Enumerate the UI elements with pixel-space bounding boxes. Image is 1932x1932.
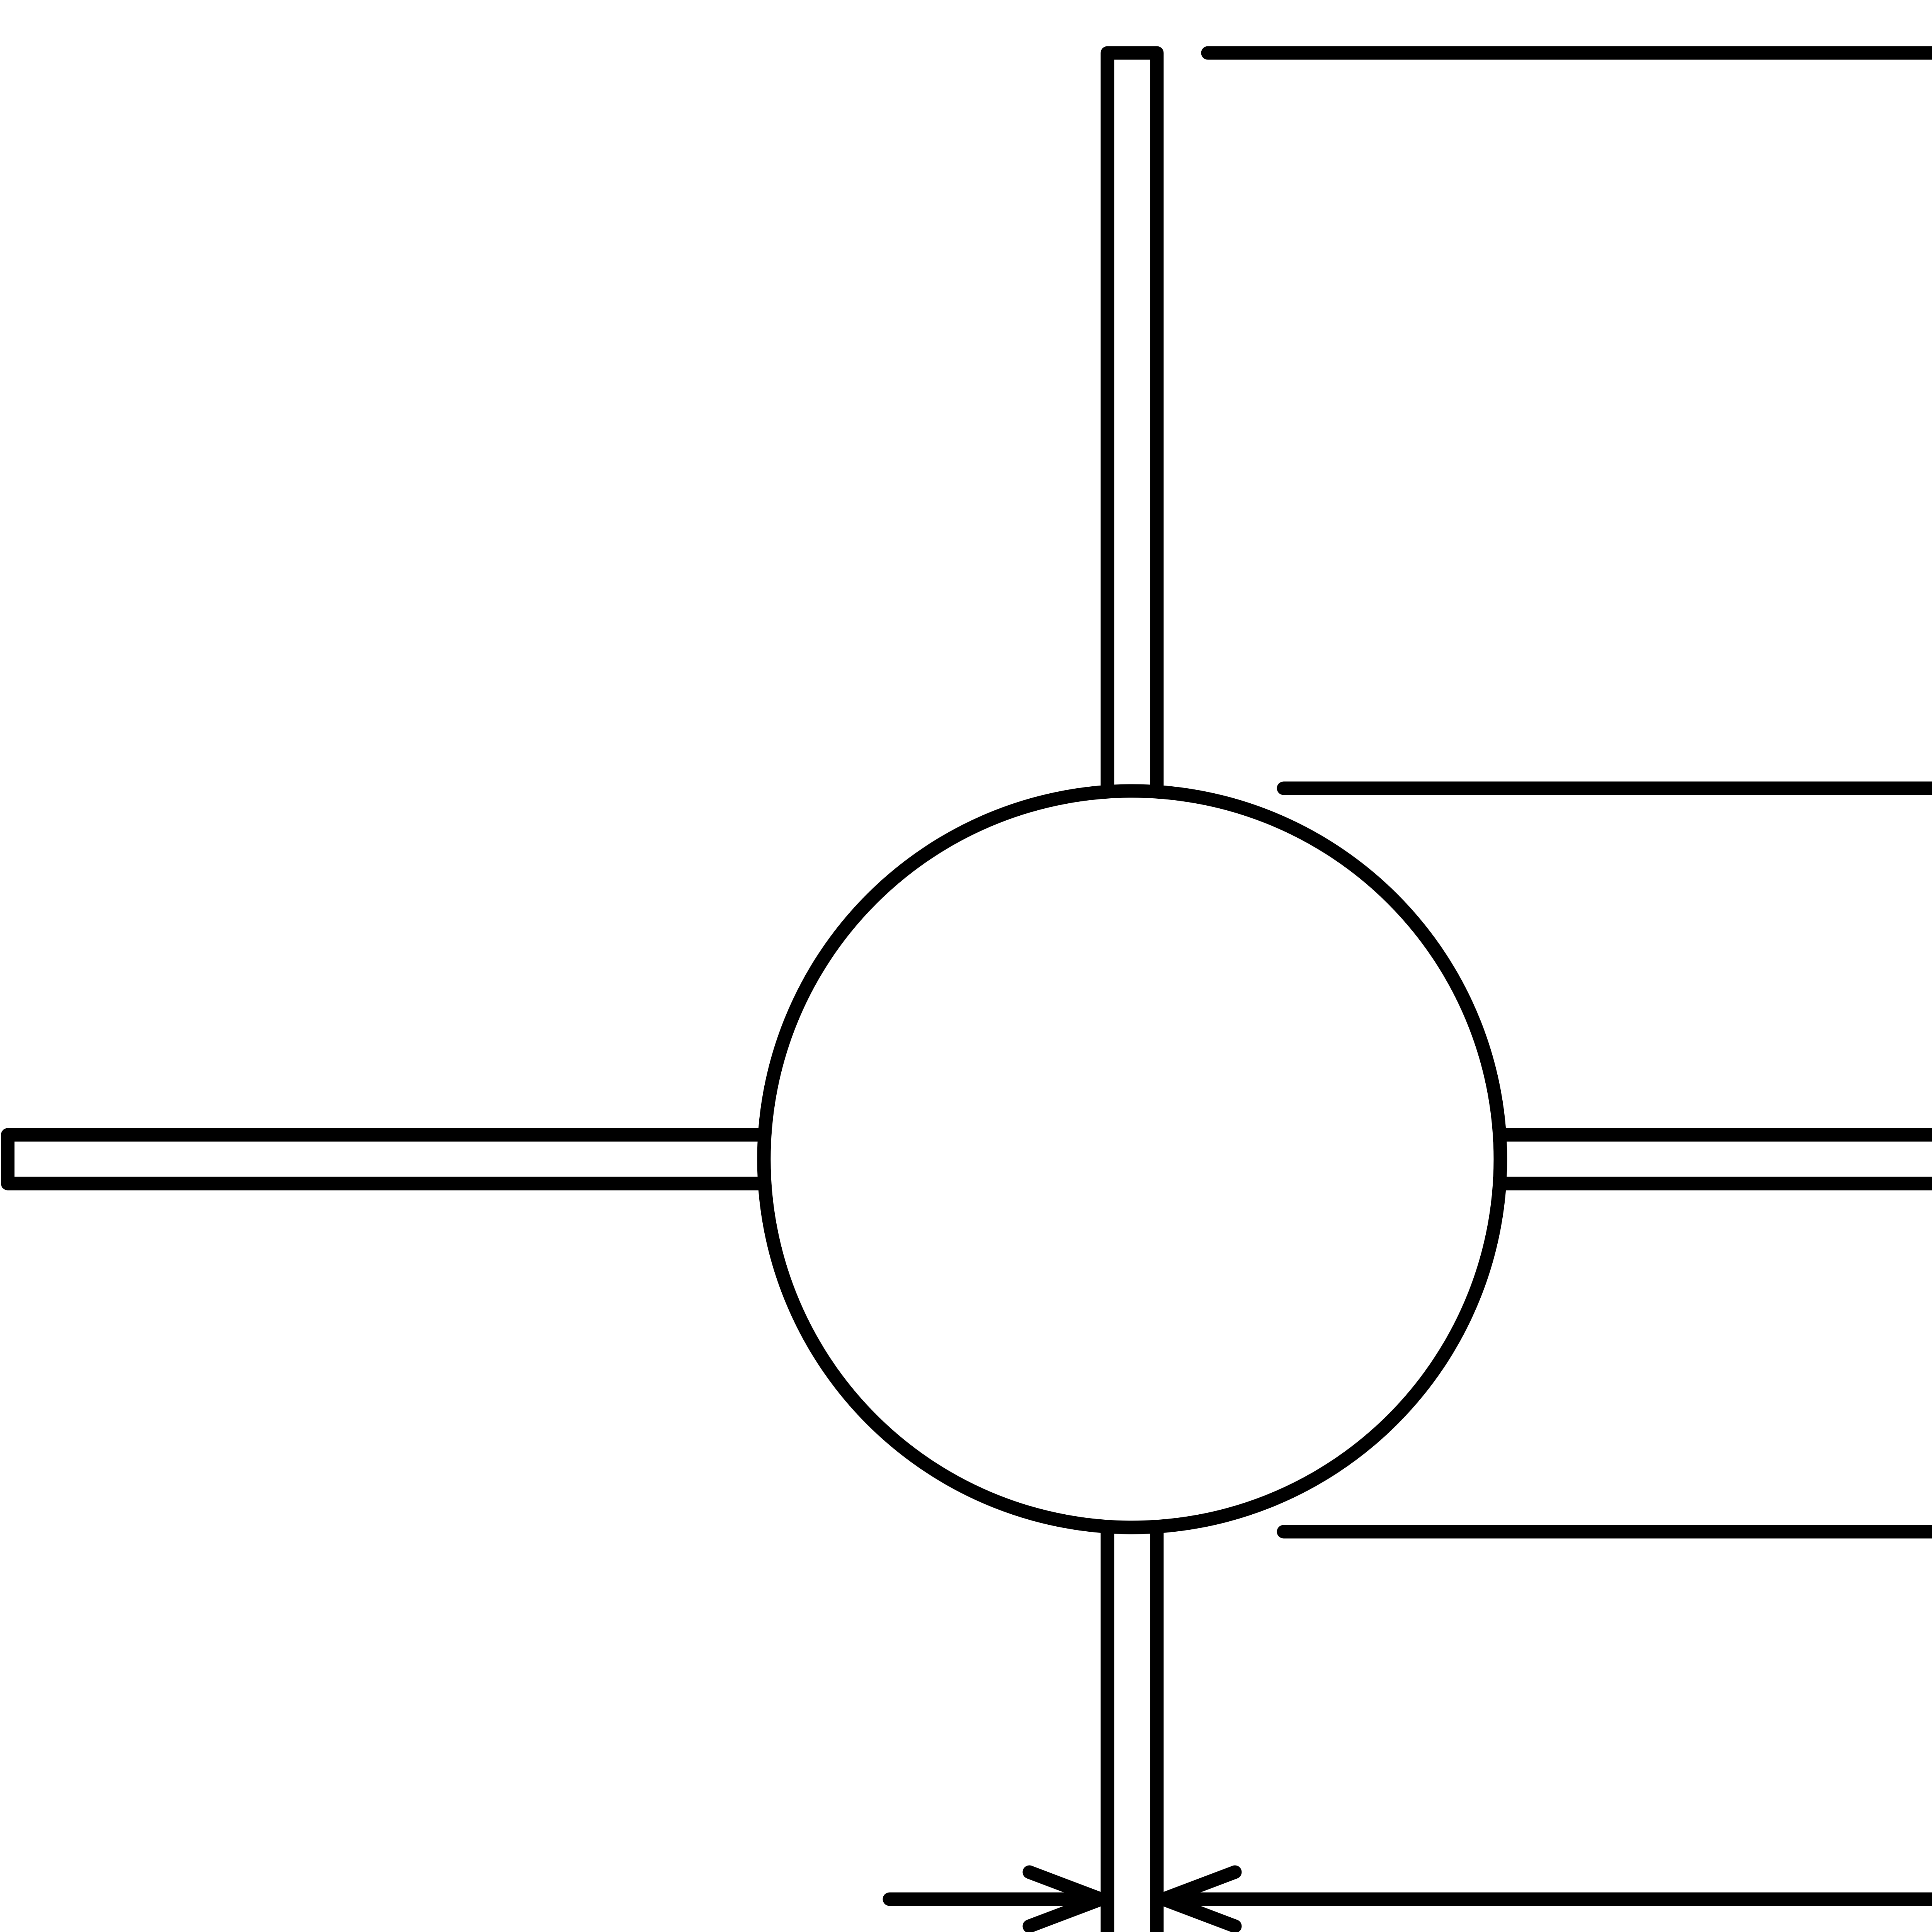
left pin: [8, 1135, 771, 1184]
1/8 leader right segment: [1163, 1893, 1932, 1906]
top extension line: [1208, 46, 1932, 60]
diameter bottom extension line: [1284, 1525, 1932, 1539]
bottom pin: [1107, 1524, 1157, 1932]
circle body (capacitor can outline): [764, 791, 1500, 1527]
top pin: [1107, 53, 1157, 794]
diameter top extension line: [1284, 782, 1932, 795]
arrowhead pointing left at pin right edge: [1163, 1872, 1235, 1926]
arrowhead pointing right at pin left edge: [1029, 1872, 1101, 1926]
1/8 leader left segment: [889, 1893, 1099, 1906]
right pin: [1493, 1135, 1932, 1184]
